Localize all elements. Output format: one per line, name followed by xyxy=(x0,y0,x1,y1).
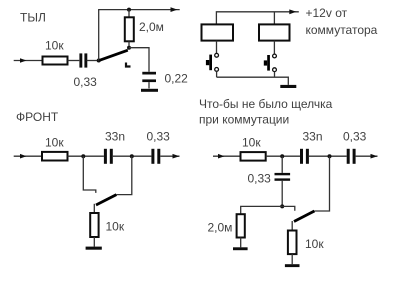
svg-text:33n: 33n xyxy=(303,130,323,144)
svg-text:10к: 10к xyxy=(45,39,64,53)
svg-text:+12v от: +12v от xyxy=(306,6,348,20)
svg-text:коммутатора: коммутатора xyxy=(306,23,378,37)
svg-text:2,0м: 2,0м xyxy=(139,20,164,34)
svg-text:ТЫЛ: ТЫЛ xyxy=(20,11,46,25)
svg-text:10к: 10к xyxy=(45,136,64,150)
svg-text:0,33: 0,33 xyxy=(343,130,367,144)
svg-text:Что-бы не было щелчка: Что-бы не было щелчка xyxy=(199,97,333,111)
svg-text:0,33: 0,33 xyxy=(74,75,98,89)
svg-text:ФРОНТ: ФРОНТ xyxy=(16,110,59,124)
svg-text:при коммутации: при коммутации xyxy=(199,113,289,127)
svg-text:2,0м: 2,0м xyxy=(208,221,233,235)
svg-text:10к: 10к xyxy=(305,237,324,251)
svg-text:10к: 10к xyxy=(106,220,125,234)
svg-text:10к: 10к xyxy=(242,136,261,150)
svg-text:0,33: 0,33 xyxy=(147,130,171,144)
svg-text:0,33: 0,33 xyxy=(248,172,272,186)
svg-text:0,22: 0,22 xyxy=(165,72,189,86)
svg-text:33n: 33n xyxy=(105,130,125,144)
